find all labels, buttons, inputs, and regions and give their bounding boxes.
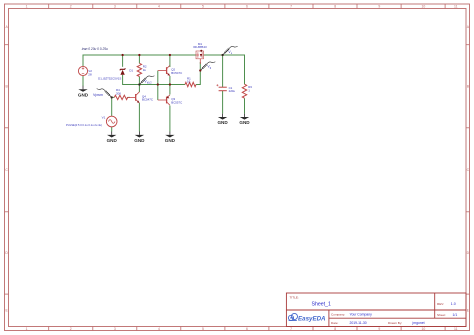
MOSFET M1 [193,42,207,64]
svg-text:REV:: REV: [437,302,444,306]
svg-text:6: 6 [246,5,248,9]
svg-text:10: 10 [187,80,191,84]
transistor Q2 [158,65,182,75]
svg-text:28: 28 [88,72,92,76]
svg-text:1/1: 1/1 [453,313,458,317]
svg-text:10: 10 [422,5,426,9]
svg-text:3: 3 [114,5,116,9]
node D1 top junction [121,54,123,56]
resistor R3 [242,84,252,98]
svg-text:.tran 0 20u 0 0.25u: .tran 0 20u 0 0.25u [81,47,108,51]
transistor Q3 [158,95,182,105]
svg-text:5: 5 [202,5,204,9]
wire: Q2/Q3 emitter junction [169,76,171,95]
wire: Vpwm node to R4 [112,96,115,98]
svg-text:2019-11-30: 2019-11-30 [350,321,367,325]
svg-text:Date:: Date: [331,321,339,325]
svg-text:BC557C: BC557C [171,100,182,104]
svg-text:4: 4 [158,5,160,9]
svg-text:GND: GND [78,92,89,97]
ground (Q4 emitter) [138,132,140,135]
node Vb node junction [138,83,140,85]
svg-text:GND: GND [165,138,176,143]
svg-text:9: 9 [378,5,380,9]
ground (Q3 collector) [169,132,171,135]
node M1 source / Vs junction [221,54,223,56]
svg-text:10: 10 [422,327,426,331]
svg-text:2: 2 [70,327,72,331]
wire: R3 to ground [244,98,246,113]
svg-text:7: 7 [290,327,292,331]
node emitter join junction [169,83,171,85]
svg-text:8: 8 [334,327,336,331]
svg-text:jmgonet: jmgonet [412,321,425,325]
wire: Q2 collector to top rail [169,55,171,67]
wire: V1 to ground [111,127,113,132]
probe Vs (net Vs, M1 source node) [222,46,238,56]
voltage source V1 (pulse) [66,116,117,127]
wire: Q3 collector to ground [169,106,171,132]
svg-text:6: 6 [246,327,248,331]
svg-text:2: 2 [70,5,72,9]
svg-text:1: 1 [26,327,28,331]
wire: Q4 emitter to ground [138,103,140,132]
voltage source V2 [78,66,92,76]
svg-text:GND: GND [107,138,118,143]
probe Vpwm (net Vpwm) [93,89,113,99]
svg-text:EasyEDA: EasyEDA [298,316,326,323]
svg-text:Drawn By:: Drawn By: [388,321,402,325]
node Q2 collector junction [169,54,171,56]
svg-text:BC547C: BC547C [142,98,153,102]
resistor R1 [185,76,196,86]
resistor R4 [114,88,127,99]
svg-text:20K: 20K [116,91,121,95]
wire: R1 to M1 gate [196,62,200,85]
svg-text:TITLE:: TITLE: [290,295,299,299]
node base ladder junction [157,83,159,85]
svg-text:4: 4 [158,327,160,331]
node Vpwm junction [111,96,113,98]
svg-text:D1_BZT52C5V1S: D1_BZT52C5V1S [98,76,121,80]
svg-text:220u: 220u [229,89,236,93]
svg-text:11: 11 [454,327,458,331]
wire: Vpwm node to V1 [111,97,113,116]
svg-text:PULSE(0 5 0 0.1u 0.1u 2u 4u): PULSE(0 5 0 0.1u 0.1u 2u 4u) [66,123,102,127]
svg-text:1: 1 [26,5,28,9]
svg-text:V1: V1 [102,116,106,120]
svg-text:Sheet:: Sheet: [437,313,446,317]
svg-text:IRLB8543: IRLB8543 [193,45,207,49]
probe Vg (net Vg, M1 gate) [199,62,215,72]
resistor R2 [137,63,147,76]
ground (R3) [244,114,246,117]
svg-text:9: 9 [378,327,380,331]
wire: zener D1 branch [122,55,124,67]
svg-text:5: 5 [202,327,204,331]
svg-text:1.0: 1.0 [451,302,456,306]
wire: top supply rail [83,55,245,84]
svg-text:GND: GND [239,120,250,125]
svg-text:GND: GND [134,138,145,143]
ground (V1) [111,132,113,135]
wire: Q2/Q3 base ladder [157,71,159,100]
svg-text:1k: 1k [143,68,147,72]
svg-text:3: 3 [114,327,116,331]
svg-text:7: 7 [290,5,292,9]
svg-text:D1: D1 [129,69,133,73]
svg-text:Your Company: Your Company [350,313,373,317]
probe Vb1/2 (net Vb1/2) [138,76,154,86]
svg-text:11: 11 [454,5,458,9]
svg-text:8: 8 [334,5,336,9]
wire: Q4 collector to middle rail [138,85,140,93]
wire: middle rail (bases / divider node) [123,75,185,85]
wire: M1 source node to C1 [222,55,224,87]
transistor Q4 [127,92,153,103]
wire: C1 to ground [222,91,224,114]
svg-text:BC547C: BC547C [171,71,182,75]
wire: V2 negative lead to ground [82,76,84,86]
ground (V2) [82,86,84,89]
svg-text:Sheet_1: Sheet_1 [312,301,331,307]
ground (C1) [222,114,224,117]
svg-text:Company:: Company: [331,313,345,317]
svg-text:Vpwm: Vpwm [93,93,103,97]
node R2 top junction [138,54,140,56]
capacitor C1 [216,84,235,93]
zener diode D1 [98,68,133,80]
title block border [286,293,466,327]
wire: R2 leads [138,55,140,85]
svg-text:GND: GND [217,120,228,125]
svg-text:b1/2: b1/2 [147,82,152,85]
wire: R4 to Q4 base [128,96,130,98]
EasyEDA logo [288,313,297,320]
